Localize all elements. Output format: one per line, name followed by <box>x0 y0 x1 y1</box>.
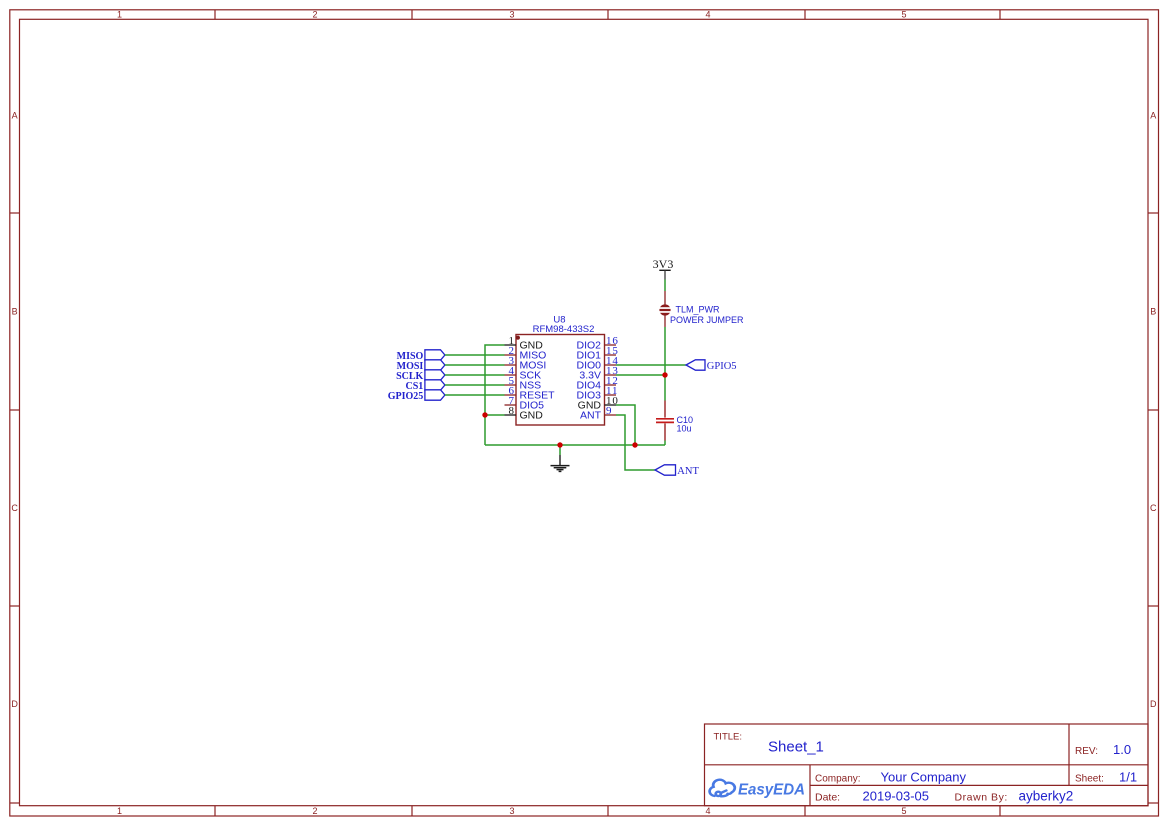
net port flag MISO <box>397 350 445 362</box>
pin 15 DIO1 (right) <box>576 345 618 362</box>
pin 1 GND (left) <box>505 335 544 352</box>
net port flag GPIO25 <box>388 390 445 402</box>
power flag 3V3 <box>653 257 674 280</box>
wire MOSI to pin <box>445 364 505 366</box>
pin 7 DIO5 (left) <box>505 395 545 412</box>
svg-text:8: 8 <box>509 405 515 417</box>
svg-text:3V3: 3V3 <box>653 257 674 271</box>
jumper label POWER JUMPER <box>670 315 744 325</box>
net port flag GPIO5 <box>686 360 737 372</box>
U8 value label RFM98-433S2 <box>533 324 595 335</box>
svg-text:1/1: 1/1 <box>1119 770 1137 785</box>
svg-text:1.0: 1.0 <box>1113 742 1131 757</box>
net port flag SCLK <box>396 370 445 382</box>
EasyEDA logo <box>710 780 735 797</box>
svg-text:4: 4 <box>705 10 710 20</box>
wire CS1 to pin <box>445 384 505 386</box>
svg-text:C: C <box>11 503 18 513</box>
svg-text:B: B <box>12 306 18 316</box>
svg-text:A: A <box>12 110 18 120</box>
svg-text:D: D <box>1150 699 1157 709</box>
svg-text:ayberky2: ayberky2 <box>1019 789 1074 804</box>
junction pin10 wire / bus <box>632 442 637 447</box>
svg-text:2: 2 <box>312 10 317 20</box>
svg-text:Sheet:: Sheet: <box>1075 774 1104 785</box>
svg-text:D: D <box>11 699 18 709</box>
svg-text:3: 3 <box>509 10 514 20</box>
svg-text:10u: 10u <box>677 424 692 434</box>
svg-text:TLM_PWR: TLM_PWR <box>676 304 721 314</box>
svg-text:2: 2 <box>312 806 317 816</box>
pin 2 MISO (left) <box>505 345 547 362</box>
capacitor C10 <box>656 401 674 441</box>
wire pin10 GND down to bus <box>616 405 635 445</box>
jumper name TLM_PWR <box>676 304 721 314</box>
svg-text:4: 4 <box>705 806 710 816</box>
wire ground bus bottom <box>485 444 665 446</box>
pin 16 DIO2 (right) <box>576 335 618 352</box>
wire pin13 3.3V to power rail <box>616 374 665 376</box>
pin 14 DIO0 (right) <box>576 355 618 372</box>
ground symbol <box>551 445 570 471</box>
svg-text:1: 1 <box>117 10 122 20</box>
svg-text:REV:: REV: <box>1075 746 1098 757</box>
junction 3.3V rail <box>662 372 667 377</box>
svg-text:1: 1 <box>117 806 122 816</box>
svg-text:A: A <box>1150 110 1156 120</box>
wire pin14 DIO0 to GPIO5 flag <box>616 364 686 366</box>
pin 11 DIO3 (right) <box>576 385 618 402</box>
pin 13 3.3V (right) <box>579 365 618 382</box>
svg-text:5: 5 <box>901 806 906 816</box>
pin 6 RESET (left) <box>505 385 556 402</box>
svg-text:GPIO25: GPIO25 <box>388 391 424 402</box>
U8 reference designator <box>553 315 565 326</box>
junction at pin8/left bus <box>482 412 487 417</box>
svg-text:EasyEDA: EasyEDA <box>738 782 805 799</box>
net port flag CS1 <box>406 380 445 392</box>
svg-text:2019-03-05: 2019-03-05 <box>863 789 930 804</box>
svg-text:Company:: Company: <box>815 774 861 785</box>
wire pin8 GND to left bus <box>485 414 505 416</box>
svg-text:ANT: ANT <box>580 410 602 422</box>
svg-text:9: 9 <box>606 405 612 417</box>
pin 12 DIO4 (right) <box>576 375 618 392</box>
wire MISO to pin <box>445 354 505 356</box>
svg-text:GND: GND <box>520 410 544 422</box>
wire pin9 ANT to flag <box>616 415 655 470</box>
wire GPIO25 to pin <box>445 394 505 396</box>
svg-text:Drawn By:: Drawn By: <box>955 792 1008 804</box>
svg-text:Date:: Date: <box>815 792 840 804</box>
pin 8 GND (left) <box>505 405 544 422</box>
capacitor C10 designator <box>677 415 694 425</box>
svg-text:Your Company: Your Company <box>881 770 967 785</box>
svg-text:GPIO5: GPIO5 <box>707 361 737 372</box>
svg-text:Sheet_1: Sheet_1 <box>768 739 824 756</box>
pin 5 NSS (left) <box>505 375 542 392</box>
svg-text:B: B <box>1150 306 1156 316</box>
svg-text:5: 5 <box>901 10 906 20</box>
pin 4 SCK (left) <box>505 365 542 382</box>
pin 9 ANT (right) <box>580 405 616 422</box>
net port flag ANT <box>655 465 699 477</box>
jumper TLM_PWR POWER JUMPER <box>659 291 671 327</box>
junction ground bus <box>557 442 562 447</box>
wire pin1 GND to left bus <box>485 345 505 445</box>
svg-text:TITLE:: TITLE: <box>714 732 743 743</box>
op-amp/IC U8 RFM98-433S2 body <box>516 335 605 426</box>
pin 10 GND (right) <box>578 395 619 412</box>
title block <box>705 724 1149 806</box>
wire SCLK to pin <box>445 374 505 376</box>
svg-text:C: C <box>1150 503 1157 513</box>
wire 3V3 rail vertical <box>664 280 666 446</box>
svg-text:3: 3 <box>509 806 514 816</box>
svg-text:ANT: ANT <box>677 466 699 477</box>
pin 3 MOSI (left) <box>505 355 547 372</box>
net port flag MOSI <box>397 360 445 372</box>
svg-text:POWER JUMPER: POWER JUMPER <box>670 315 744 325</box>
capacitor C10 value 10u <box>677 424 692 434</box>
svg-text:RFM98-433S2: RFM98-433S2 <box>533 324 595 335</box>
